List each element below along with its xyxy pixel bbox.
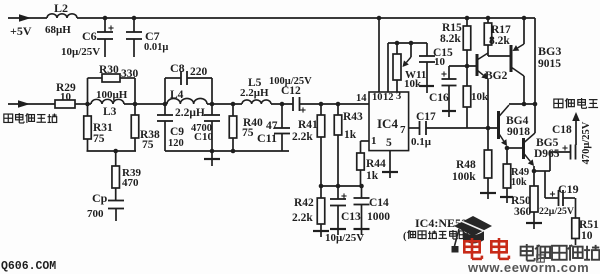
svg-text:120: 120	[168, 138, 184, 149]
svg-text:330: 330	[121, 68, 139, 80]
svg-text:C18: C18	[552, 124, 572, 136]
svg-text:C16: C16	[429, 92, 449, 104]
svg-text:1000: 1000	[367, 211, 390, 223]
svg-text:10k: 10k	[404, 78, 422, 90]
svg-text:10: 10	[372, 92, 383, 103]
svg-text:3: 3	[396, 91, 401, 102]
svg-text:L2: L2	[54, 1, 68, 15]
svg-text:10: 10	[60, 91, 72, 103]
svg-text:C10: C10	[194, 131, 213, 143]
svg-text:10μ/25V: 10μ/25V	[61, 46, 100, 58]
svg-text:10: 10	[434, 56, 446, 68]
svg-text:C8: C8	[170, 61, 185, 75]
svg-text:L4: L4	[170, 89, 184, 101]
svg-text:100μH: 100μH	[96, 89, 128, 101]
svg-text:R43: R43	[343, 111, 363, 123]
svg-text:1: 1	[371, 135, 377, 147]
svg-text:BG2: BG2	[485, 70, 508, 82]
svg-text:IC4: IC4	[377, 116, 398, 131]
svg-text:R30: R30	[99, 64, 119, 76]
svg-text:10k: 10k	[471, 91, 489, 103]
svg-text:75: 75	[242, 127, 254, 139]
svg-text:10k: 10k	[511, 177, 527, 188]
svg-text:14: 14	[356, 93, 367, 104]
svg-text:R41: R41	[298, 119, 318, 131]
svg-text:R48: R48	[456, 159, 476, 171]
svg-text:22μ/25V: 22μ/25V	[539, 206, 574, 217]
svg-text:220: 220	[190, 66, 208, 78]
svg-text:2.2k: 2.2k	[292, 212, 313, 224]
svg-text:(: (	[403, 231, 407, 242]
svg-text:2.2μH: 2.2μH	[240, 87, 269, 99]
svg-text:5: 5	[386, 137, 392, 149]
svg-text:R42: R42	[294, 197, 314, 209]
svg-text:C12: C12	[281, 85, 301, 97]
svg-text:BG3: BG3	[538, 44, 561, 58]
svg-text:C14: C14	[369, 197, 389, 209]
svg-text:100k: 100k	[452, 171, 476, 183]
svg-text:+5V: +5V	[10, 24, 32, 38]
svg-text:12: 12	[383, 92, 394, 103]
svg-text:700: 700	[87, 208, 104, 220]
svg-text:7: 7	[400, 124, 406, 136]
svg-text:75: 75	[142, 139, 154, 151]
svg-text:9015: 9015	[538, 58, 561, 70]
svg-text:0.01μ: 0.01μ	[144, 42, 168, 53]
svg-text:R44: R44	[366, 158, 386, 170]
svg-text:68μH: 68μH	[45, 24, 71, 36]
svg-text:1k: 1k	[344, 129, 357, 141]
svg-text:470: 470	[122, 177, 139, 189]
svg-text:75: 75	[93, 133, 105, 145]
svg-text:C19: C19	[558, 182, 579, 196]
svg-text:10μ/25V: 10μ/25V	[325, 232, 364, 244]
svg-text:8.2k: 8.2k	[489, 35, 510, 47]
svg-text:Q606.COM: Q606.COM	[1, 260, 56, 273]
svg-text:C7: C7	[145, 29, 160, 43]
svg-text:0.1μ: 0.1μ	[411, 136, 432, 148]
svg-text:2.2k: 2.2k	[292, 131, 313, 143]
svg-text:C9: C9	[170, 126, 184, 138]
svg-text:1k: 1k	[366, 170, 379, 182]
svg-text:C17: C17	[416, 111, 436, 123]
svg-text:D965: D965	[534, 148, 560, 160]
svg-text:470μ/25V: 470μ/25V	[581, 121, 592, 164]
svg-text:2.2μH: 2.2μH	[175, 107, 205, 119]
svg-text:10: 10	[581, 230, 593, 242]
svg-text:9018: 9018	[507, 126, 530, 138]
svg-text:8.2k: 8.2k	[440, 33, 461, 45]
svg-text:C6: C6	[82, 29, 97, 43]
svg-text:C11: C11	[257, 131, 277, 145]
svg-text:360: 360	[514, 206, 532, 218]
svg-text:L3: L3	[103, 106, 117, 118]
svg-text:C13: C13	[341, 211, 361, 223]
svg-text:www.eeworm.com: www.eeworm.com	[467, 260, 589, 274]
svg-text:Cp: Cp	[92, 191, 108, 205]
